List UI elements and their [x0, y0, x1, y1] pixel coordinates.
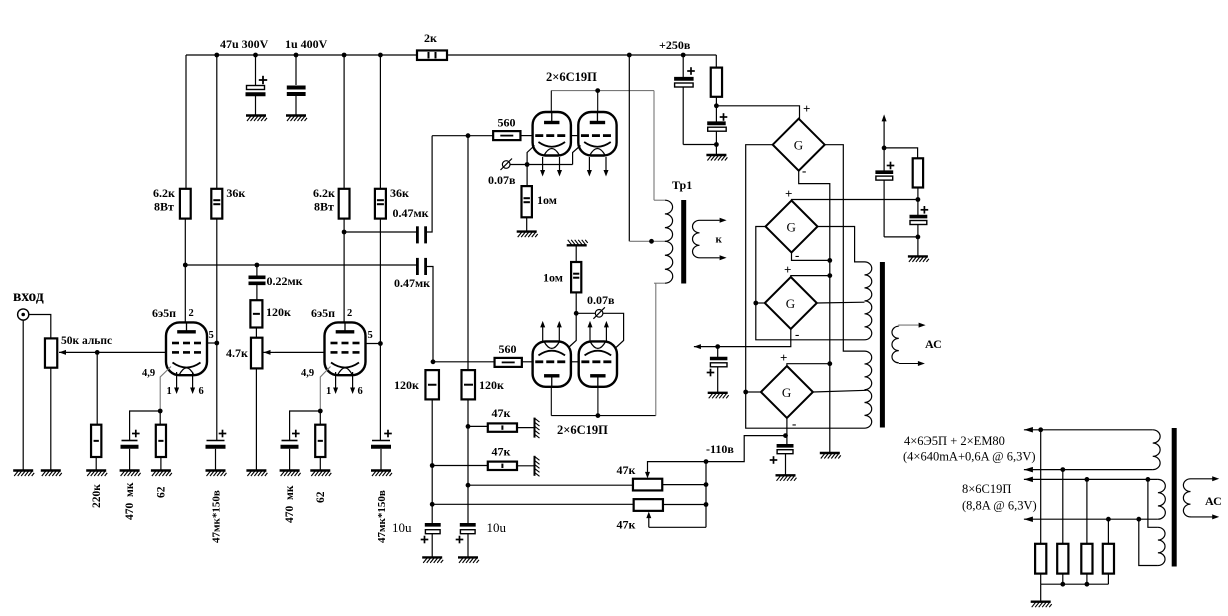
tube 6C19P L2	[579, 341, 617, 386]
resistor 120k divider upper	[250, 300, 262, 327]
wire tube U1 anode up	[550, 91, 552, 112]
Tp1 secondary winding	[693, 220, 700, 257]
node heater bus 1	[1060, 582, 1065, 587]
capacitor 47mk*150v stage2	[372, 440, 390, 442]
wire anode1 to 0.47uk lower	[185, 264, 416, 266]
arrow OPT secondary top	[919, 323, 926, 328]
heater arrow 1 stage1	[176, 372, 178, 389]
svg-text:0.22мк: 0.22мк	[267, 274, 303, 288]
plus of 10u right	[456, 539, 464, 541]
capacitor 0.47uk lower	[416, 258, 419, 275]
svg-text:2к: 2к	[424, 31, 437, 45]
OPT secondary winding	[892, 326, 899, 363]
wire 47k2 lead	[432, 465, 488, 467]
svg-text:(8,8A @ 6,3V): (8,8A @ 6,3V)	[962, 499, 1037, 513]
svg-text:+: +	[784, 262, 791, 277]
svg-text:220к: 220к	[91, 484, 103, 508]
wire 0.47 lower to lower grid bus	[427, 267, 433, 362]
bridge rectifier G3	[765, 277, 817, 329]
ground speaker cap	[708, 393, 729, 399]
wire 47k1 lead	[468, 425, 488, 427]
svg-text:6: 6	[358, 386, 363, 397]
svg-text:10u: 10u	[487, 520, 507, 535]
wire top +250V rail left section	[186, 54, 417, 56]
testpoint upper 0.07v	[510, 164, 527, 166]
svg-text:1ом: 1ом	[543, 271, 563, 285]
node zero bus b4plus	[827, 361, 832, 366]
wire 36k2 to pin5 and cap	[379, 219, 381, 441]
heater winding A	[1153, 430, 1160, 470]
wire grid link U1-U2	[571, 135, 578, 137]
bridge rectifier G4	[761, 366, 813, 418]
wire grid1 to 50k wiper	[59, 351, 166, 353]
wire 1om lower to inverted ground	[575, 245, 577, 262]
svg-text:вход: вход	[13, 288, 44, 305]
svg-text:47к: 47к	[492, 445, 511, 459]
arrow trimmer2 wiper	[648, 517, 650, 527]
svg-text:120к: 120к	[479, 378, 504, 392]
resistor right branch	[913, 158, 923, 187]
plus right branch lower cap	[921, 209, 929, 211]
resistor 47k fixed 2	[488, 462, 517, 470]
ground of 1u	[286, 116, 307, 122]
svg-text:(4×640mA+0,6A @ 6,3V): (4×640mA+0,6A @ 6,3V)	[903, 450, 1036, 464]
wire 47k2 to chassis	[517, 465, 534, 467]
svg-text:5: 5	[368, 330, 373, 341]
plus of 10u left	[421, 539, 429, 541]
wire filter ground bus	[683, 144, 716, 146]
Tp1 core	[681, 200, 686, 284]
svg-text:50к альпс: 50к альпс	[61, 335, 112, 347]
heater arrows U2	[588, 157, 590, 171]
wire winding C top link	[1148, 479, 1158, 527]
wire jack to ground	[22, 320, 24, 470]
svg-text:47к: 47к	[617, 518, 636, 532]
svg-text:АС: АС	[925, 337, 942, 351]
wire cathode2 down	[320, 367, 330, 412]
wire Tp1 primary bottom lead	[654, 282, 665, 284]
wire G1 right AC to winding3	[825, 145, 865, 351]
ground right branch	[908, 256, 929, 262]
svg-text:G: G	[782, 385, 791, 400]
resistor heater R2	[1062, 470, 1064, 544]
svg-text:0.47мк: 0.47мк	[393, 206, 429, 220]
wire upper cathode to 1om	[526, 165, 528, 187]
wire 50k pot to ground	[50, 368, 52, 471]
svg-text:G: G	[794, 138, 803, 153]
capacitor bias	[777, 444, 794, 448]
resistor 1om lower	[571, 262, 581, 292]
wire Tp1 secondary top lead with arrow	[700, 219, 720, 221]
capacitor 0.22uk	[256, 265, 258, 276]
svg-text:47к: 47к	[617, 463, 636, 477]
ground 220k	[86, 471, 107, 477]
svg-text:6э5п: 6э5п	[311, 306, 335, 320]
plus of +250 filter cap	[687, 70, 695, 72]
ground 470mk stage1	[120, 471, 141, 477]
tube 6e5p stage2	[325, 322, 366, 375]
node speaker cap junction	[715, 344, 720, 349]
capacitor 470mk stage1	[122, 440, 138, 442]
svg-text:0.07в: 0.07в	[488, 173, 516, 187]
plus of speaker cap	[707, 372, 715, 374]
plus of 47u	[259, 79, 267, 81]
resistor 36k stage2	[375, 189, 386, 219]
svg-text:8Вт: 8Вт	[314, 200, 334, 214]
node rail-+250 cap junction	[681, 53, 686, 58]
wire minus110 to trimmer1 wiper	[648, 462, 707, 473]
wire 62 to ground stage2	[319, 457, 321, 471]
node grid1-220k junction	[95, 350, 100, 355]
heater arrows U1	[542, 157, 544, 171]
svg-text:560: 560	[498, 116, 516, 130]
node trimmer1 junction	[466, 483, 471, 488]
svg-text:6: 6	[199, 386, 204, 397]
ground 47mk*150v stage1	[206, 471, 227, 477]
node anode1-coupling junction	[183, 263, 188, 268]
wire jack to pot	[29, 315, 51, 339]
wire 62 to ground stage1	[160, 457, 162, 471]
wire lower cathode bus with corner	[576, 313, 623, 347]
ground 1om upper	[517, 232, 538, 238]
wire grid2 to 4.7k wiper	[275, 351, 325, 353]
node 0.22uk chain junction	[255, 263, 260, 268]
heater secondary winding	[1183, 479, 1190, 517]
chassis hatch 1	[535, 418, 540, 439]
node R1 top	[1038, 427, 1043, 432]
resistor 560 lower	[495, 358, 522, 367]
svg-text:АС: АС	[1205, 494, 1222, 508]
node rail-36k junction	[214, 53, 219, 58]
node rail-36k2 junction	[378, 53, 383, 58]
ground of 47u	[246, 116, 267, 122]
capacitor right branch lower	[910, 215, 928, 219]
node R2 top	[1060, 467, 1065, 472]
svg-text:47к: 47к	[492, 406, 511, 420]
node minus110 cap junction	[783, 433, 788, 438]
wire rail corner to dropper resistor	[715, 55, 717, 68]
ground inverted above 1om lower	[567, 240, 588, 246]
ground 10u left	[422, 557, 443, 563]
wire G3 minus to speaker line	[694, 329, 791, 346]
wire upper grid bus	[432, 135, 493, 137]
wire Tp1 primary top lead	[654, 199, 665, 201]
wire 560 to tube U1 grid	[521, 135, 533, 137]
wire rail to 6.2k R1	[185, 55, 187, 189]
wire G2 plus to right	[792, 200, 918, 201]
svg-text:5: 5	[209, 330, 214, 341]
potentiometer 4.7k	[251, 338, 263, 369]
node lower anode junction	[596, 413, 601, 418]
plus right branch upper cap	[887, 165, 895, 167]
resistor 47k fixed 1	[488, 423, 517, 431]
wire tube L1 anode down	[550, 387, 552, 416]
wire heater bus to ground	[1040, 584, 1042, 602]
capacitor 47u 300V	[255, 55, 257, 85]
wire trimmer1 left lead	[468, 484, 633, 486]
wire tube U2 anode up	[597, 91, 599, 112]
wire 4.7k to ground	[255, 368, 257, 470]
wire OPT secondary bottom lead	[899, 363, 918, 365]
node R4 top	[1106, 517, 1111, 522]
resistor 62 stage1	[156, 425, 166, 457]
wire winding C bottom link	[1139, 519, 1158, 565]
chassis hatch 2	[535, 456, 540, 477]
heater core	[1172, 428, 1177, 567]
Tp1 primary winding upper	[665, 200, 673, 241]
wire rail to 36k stage2	[379, 55, 381, 189]
node trimmer2 junction	[430, 502, 435, 507]
wire 120k to 4.7k pot	[255, 328, 257, 338]
svg-text:4,9: 4,9	[301, 368, 314, 379]
wire cathode2 to 62 stage2	[319, 411, 321, 425]
wire heater A bottom	[1024, 469, 1153, 471]
node rail-6.2k2 junction	[342, 53, 347, 58]
svg-text:0.47мк: 0.47мк	[394, 276, 430, 290]
svg-text:6э5п: 6э5п	[152, 306, 176, 320]
wire center tap	[629, 240, 665, 242]
wire G3 left vertex	[756, 302, 765, 304]
testpoint lower 0.07v	[595, 310, 603, 318]
wire trimmer2 left lead	[432, 503, 633, 505]
wire G3 plus to zero bus	[791, 276, 830, 277]
ground 50k pot	[41, 471, 62, 477]
svg-text:62: 62	[315, 491, 327, 503]
wire 220k to ground	[95, 457, 97, 471]
arrow trimmer1 wiper	[645, 472, 650, 479]
svg-text:2: 2	[189, 308, 194, 319]
svg-text:+: +	[803, 101, 810, 116]
OPT primary winding lower	[865, 351, 872, 428]
ground heater	[1031, 602, 1052, 608]
plus of 47mk*150v stage1	[219, 433, 227, 435]
heater arrows L2	[589, 327, 591, 342]
heater arrow 6 stage2	[352, 372, 354, 389]
node cathode1 junction	[158, 409, 163, 414]
wire trimmer2 wiper bottom	[649, 526, 706, 528]
svg-text:1: 1	[167, 386, 172, 397]
wire G1 left AC down bus	[746, 145, 865, 429]
svg-text:36к: 36к	[226, 186, 245, 200]
arrow speaker line	[694, 344, 701, 349]
wire lower anode bus	[551, 415, 656, 417]
node heater bus 2	[1085, 582, 1090, 587]
svg-text:4.7к: 4.7к	[226, 346, 248, 360]
node lower cathode junction	[574, 311, 579, 316]
svg-text:+250в: +250в	[659, 38, 691, 52]
node trimmer2 right junction	[704, 502, 709, 507]
wire 6.2k to tube2 anode	[343, 219, 345, 324]
node minus110 junction	[704, 459, 709, 464]
wire branch to resistor	[884, 148, 918, 158]
plus of second filter cap	[720, 116, 728, 118]
wire up arrow branch	[883, 121, 885, 171]
wire tube L2 anode down	[597, 387, 599, 416]
wire resistor to node199	[917, 188, 919, 216]
svg-text:560: 560	[499, 342, 517, 356]
wire lower bus right branch	[884, 236, 918, 238]
svg-text:-110в: -110в	[706, 442, 734, 456]
wire G4 right to winding34 tap	[813, 390, 867, 392]
svg-text:-: -	[802, 163, 806, 178]
node zero bus b2minus	[827, 258, 832, 263]
wire 560 lower to tube L1 grid	[522, 361, 533, 363]
node G3 left junction	[753, 301, 758, 306]
wire x468 upper grid down	[467, 136, 469, 523]
heater arrows L1	[542, 327, 544, 342]
ground input jack	[13, 471, 34, 477]
heater arrow 6 stage1	[192, 372, 194, 389]
OPT primary winding upper	[865, 262, 872, 340]
wire cathode U2 down	[573, 146, 581, 165]
wire dropper to node	[715, 97, 717, 122]
svg-text:36к: 36к	[390, 186, 409, 200]
wire trimmer1 right lead	[662, 484, 706, 486]
capacitor 0.47uk upper	[416, 226, 419, 243]
plus of 470mk stage2	[292, 433, 300, 435]
wire minus110 vertical	[705, 462, 707, 528]
node upper anode junction	[595, 88, 600, 93]
Tp1 primary winding lower	[665, 241, 673, 283]
wire cathode2 to bypass cap stage2	[290, 411, 321, 441]
node G4 left junction	[743, 390, 748, 395]
node trimmer1 right junction	[704, 482, 709, 487]
capacitor +250 filter	[682, 55, 684, 77]
svg-text:10u: 10u	[392, 520, 412, 535]
resistor 120k grid left	[425, 370, 439, 399]
ground 62 stage1	[151, 471, 172, 477]
node anode2-coupling junction	[342, 230, 347, 235]
node R3 top	[1085, 477, 1090, 482]
svg-text:2×6С19П: 2×6С19П	[546, 70, 597, 84]
wire cathode1 down	[160, 367, 171, 412]
wire anode bus to Tp1 top	[653, 91, 655, 201]
node lower grid junction	[431, 359, 436, 364]
ground PSU filter	[706, 155, 727, 161]
wire 120k left down	[431, 399, 433, 523]
arrow wiper 50k	[59, 350, 66, 355]
arrow wiper 4.7k	[263, 351, 275, 353]
wire 0.47 upper to grid wire	[427, 136, 432, 232]
tube 6C19P L1	[533, 341, 571, 386]
node rail-1u junction	[294, 53, 299, 58]
svg-text:к: к	[716, 234, 723, 246]
resistor 560 upper	[493, 131, 520, 140]
wire G4 plus to zero bus	[787, 364, 830, 366]
wire 6.2k to tube1 anode	[184, 219, 186, 324]
svg-text:G: G	[787, 220, 796, 235]
bridge rectifier G1	[773, 119, 825, 171]
capacitor right branch upper	[875, 170, 893, 174]
wire G4 left vertex	[746, 391, 761, 393]
svg-text:62: 62	[156, 486, 168, 498]
node b2plus junction	[916, 197, 921, 202]
ground 4.7k	[246, 471, 267, 477]
capacitor 470mk stage2	[282, 440, 298, 442]
wire to bridge1 plus	[716, 106, 799, 119]
node upper cathode junction	[525, 162, 530, 167]
wire cathode U1 down	[527, 146, 534, 165]
svg-text:0.07в: 0.07в	[587, 293, 615, 307]
ground 62 stage2	[310, 471, 331, 477]
resistor 120k grid right	[462, 370, 476, 399]
svg-text:2: 2	[347, 308, 352, 319]
input jack	[18, 309, 29, 320]
trimmer 47k lower	[634, 499, 663, 511]
tube 6e5p stage1	[166, 322, 207, 375]
svg-text:8Вт: 8Вт	[154, 200, 174, 214]
plus of 47mk*150v stage2	[384, 433, 392, 435]
wire anode2 to 0.47uk upper	[344, 231, 417, 233]
capacitor 1u 400V	[295, 55, 297, 85]
tube 6C19P U2	[578, 112, 616, 156]
svg-text:1: 1	[326, 386, 331, 397]
wire heater resistors bottom bus	[1040, 574, 1042, 585]
svg-text:120к: 120к	[394, 378, 419, 392]
wire tube1 pin5	[207, 342, 217, 344]
wire OPT secondary top lead	[899, 325, 919, 326]
node right branch lower	[916, 235, 921, 240]
svg-text:470 мк: 470 мк	[284, 485, 296, 523]
resistor 220k	[91, 425, 101, 457]
wire cathode1 to 62	[159, 411, 161, 425]
capacitor 47mk*150v stage1	[207, 440, 225, 442]
node 47k2 junction	[430, 463, 435, 468]
ground zero bus	[820, 453, 841, 459]
node rail-Tp1 feed junction	[627, 53, 632, 58]
resistor 6.2k 8W stage1	[180, 189, 191, 219]
wire tube2 pin5	[363, 343, 380, 345]
plus of bias cap	[770, 459, 778, 461]
node center tap dot	[649, 239, 654, 244]
heater winding C	[1158, 527, 1165, 565]
node cathode2 junction	[318, 409, 323, 414]
node rail-47u junction	[253, 53, 258, 58]
ground 47mk*150v stage2	[371, 471, 392, 477]
wire heater secondary top lead	[1191, 478, 1213, 480]
wire lower anode bus to Tp1 bottom	[655, 283, 657, 415]
node pin5 stage2 junction	[378, 341, 383, 346]
resistor heater R4	[1107, 519, 1109, 544]
wire G1 minus to zero bus	[799, 171, 830, 453]
wire G2 minus to zero bus	[792, 253, 830, 261]
node upper grid junction	[466, 133, 471, 138]
wire minus110 path	[706, 436, 786, 462]
wire lower grid bus	[433, 361, 495, 363]
capacitor speaker coupling	[717, 347, 719, 357]
wire to 220k	[96, 352, 98, 424]
wire 1om lower to cathode node	[575, 292, 577, 313]
wire top rail right section after 2k	[447, 54, 716, 56]
resistor PSU dropper	[711, 68, 722, 97]
wire heater A top	[1024, 429, 1153, 431]
wire +250 to Tp1 center tap	[628, 55, 630, 241]
wire heater B bottom	[1024, 518, 1158, 520]
resistor 2k inline in rail	[417, 50, 447, 60]
resistor 6.2k 8W stage2	[339, 189, 350, 219]
resistor heater R3	[1086, 479, 1088, 543]
wire 47k1 to chassis	[517, 427, 534, 429]
wire grid link L1-L2	[571, 361, 579, 363]
svg-text:G: G	[786, 296, 795, 311]
wire G4 minus down	[786, 418, 788, 444]
node dropper junction	[714, 103, 719, 108]
wire rail to 6.2k stage2	[343, 55, 345, 189]
node 47k1 junction	[466, 424, 471, 429]
wire upper cathode bus	[527, 164, 573, 166]
node winding C link bottom	[1136, 517, 1141, 522]
heater winding B	[1158, 479, 1165, 519]
